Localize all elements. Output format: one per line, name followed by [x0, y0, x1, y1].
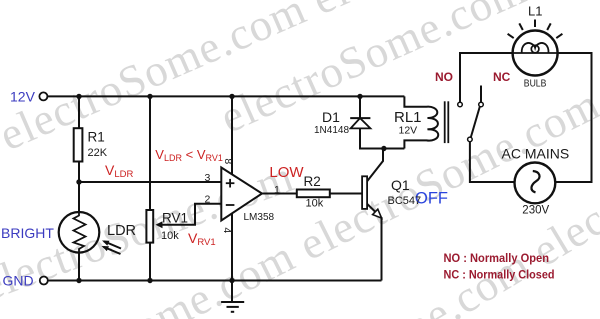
- wire LDR bottom: [78, 253, 80, 281]
- wire RV1 bottom: [149, 243, 151, 281]
- wire bulb left to NO contact: [460, 53, 513, 102]
- wire R1 top: [78, 96, 80, 128]
- svg-text:8: 8: [222, 158, 234, 164]
- lamp rays: [508, 20, 563, 39]
- svg-text:12V: 12V: [399, 124, 418, 136]
- svg-text:2: 2: [205, 193, 211, 205]
- ground: [221, 281, 244, 312]
- svg-text:1: 1: [274, 184, 280, 196]
- wire AC mains right to bulb: [555, 53, 591, 182]
- svg-text:10k: 10k: [161, 230, 179, 242]
- svg-text:230V: 230V: [522, 204, 549, 216]
- junction pin8/12V rail: [229, 94, 234, 99]
- wire RV1 top: [149, 96, 151, 210]
- svg-text:RV1: RV1: [162, 211, 188, 226]
- svg-text:GND: GND: [3, 273, 34, 289]
- wire top rail: [48, 95, 405, 97]
- junction D1/12V rail: [357, 94, 362, 99]
- wire opamp output to R2: [262, 193, 297, 195]
- op-amp U1 LM358: [221, 168, 262, 221]
- wire Q1 emitter down: [381, 217, 383, 281]
- wire coil bottom to D1: [359, 148, 404, 150]
- svg-text:1N4148: 1N4148: [314, 125, 349, 136]
- terminal GND: [40, 277, 48, 285]
- svg-text:LOW: LOW: [269, 164, 304, 181]
- relay contact NO: [458, 102, 463, 107]
- wire bottom rail: [48, 280, 382, 282]
- potentiometer RV1: [146, 210, 162, 243]
- wire pin2 to RV1 wiper: [158, 204, 221, 225]
- wire relay lever: [471, 107, 480, 138]
- svg-text:4: 4: [221, 227, 233, 233]
- LDR: [59, 212, 121, 254]
- wire pin8 to rail: [231, 96, 233, 175]
- junction RV1/12V rail: [147, 94, 152, 99]
- LDR light arrows: [104, 241, 122, 254]
- svg-text:22K: 22K: [88, 147, 108, 159]
- svg-text:L1: L1: [528, 3, 542, 18]
- junction Q1 collector/relay coil: [381, 146, 386, 151]
- terminal 12V: [39, 92, 47, 100]
- lamp L1: [508, 20, 563, 76]
- svg-text:NO : Normally Open: NO : Normally Open: [444, 251, 550, 265]
- svg-text:LM358: LM358: [244, 212, 275, 223]
- resistor R1: [74, 128, 83, 161]
- svg-text:R1: R1: [88, 130, 105, 145]
- svg-text:LDR: LDR: [107, 223, 136, 239]
- junction RV1/GND rail: [147, 278, 152, 283]
- junction pin4/GND rail: [229, 278, 234, 283]
- wire NC stub: [480, 86, 482, 103]
- junction R1/12V rail: [76, 94, 81, 99]
- svg-text:R2: R2: [304, 174, 321, 189]
- diode D1: [350, 118, 370, 128]
- relay core: [445, 101, 449, 143]
- wire pivot to AC mains: [470, 142, 515, 182]
- transistor Q1: [362, 176, 382, 218]
- wire pin4 to ground rail: [231, 213, 233, 281]
- lamp filament: [513, 43, 558, 53]
- svg-text:10k: 10k: [306, 197, 324, 209]
- resistor R2: [297, 190, 330, 198]
- node VLDR junction: [76, 179, 81, 184]
- svg-text:NC: NC: [493, 70, 511, 84]
- junction LDR/GND rail: [76, 278, 81, 283]
- svg-text:Q1: Q1: [391, 177, 410, 193]
- svg-text:BRIGHT: BRIGHT: [1, 225, 54, 241]
- wire R1 bottom to LDR: [78, 162, 80, 213]
- svg-text:NC : Normally Closed: NC : Normally Closed: [444, 267, 555, 281]
- wire R2 to Q1 base: [330, 193, 362, 195]
- svg-text:AC MAINS: AC MAINS: [502, 145, 570, 161]
- wire Q1 collector up: [367, 149, 383, 182]
- sine wave symbol: [531, 171, 539, 192]
- relay contact NC: [479, 102, 484, 107]
- relay coil RL1: [404, 96, 438, 148]
- svg-text:12V: 12V: [10, 89, 36, 105]
- wire node VLDR to pin3: [79, 181, 221, 183]
- svg-text:NO: NO: [435, 70, 453, 84]
- wire D1 branch: [359, 96, 361, 118]
- wire D1 anode down: [359, 128, 361, 149]
- svg-text:D1: D1: [322, 109, 340, 125]
- svg-text:BC547: BC547: [388, 195, 422, 207]
- svg-text:BULB: BULB: [524, 78, 547, 90]
- AC source: [515, 163, 556, 204]
- relay pivot: [468, 137, 473, 142]
- svg-text:3: 3: [205, 172, 211, 184]
